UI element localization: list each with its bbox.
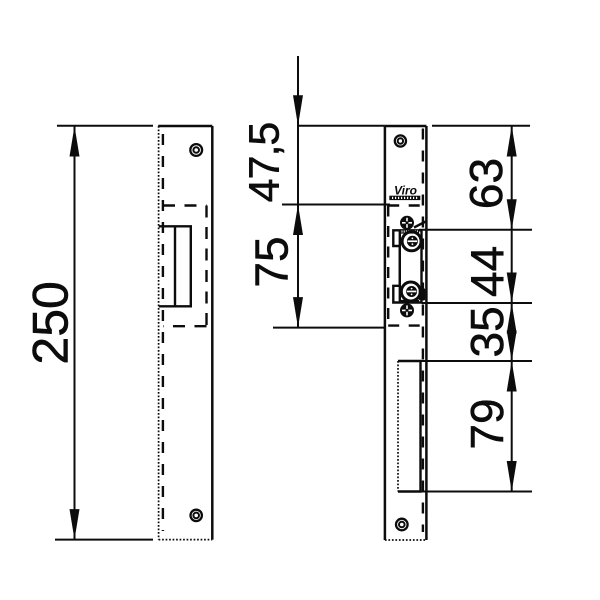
left view latch pocket rectangle (159, 226, 191, 306)
extension line 250 bottom (55, 539, 153, 541)
arrow 63 top (tip up) (507, 126, 517, 157)
arrow 35 top (tip up) (507, 303, 517, 334)
right view dashed cutout top edge (388, 204, 423, 206)
arrow 250 bottom (tip down) (70, 509, 80, 539)
left view plate right edge (211, 126, 214, 540)
latch pin blob (419, 288, 426, 300)
pointer diagonal tick at 63/44 boundary (414, 221, 427, 228)
bottom serrated adjuster bar (400, 300, 420, 303)
extension line right top (432, 125, 530, 127)
strike slot rectangle (79) (398, 361, 421, 492)
top phillips screw (400, 216, 414, 230)
extension line 75 bottom (273, 327, 385, 329)
svg-text:75: 75 (246, 236, 298, 287)
left view plate left edge (thin dotted) (158, 126, 160, 540)
svg-text:63: 63 (460, 158, 512, 209)
extension line 63/44 boundary (419, 229, 532, 231)
arrow 79 bottom (tip down) (507, 461, 517, 492)
right view bottom screw hole inner (399, 522, 405, 528)
right view bend hidden line (dashed) (422, 129, 424, 533)
arrow 35 bottom (tip down) (507, 331, 517, 362)
right view bottom screw hole outer (396, 519, 408, 531)
right view plate right edge (425, 126, 428, 540)
extension line 79 bottom (421, 491, 533, 493)
top serrated adjuster bar (400, 230, 420, 234)
left view dashed cutout bottom edge (163, 325, 207, 327)
svg-text:47,5: 47,5 (241, 123, 289, 203)
left view dashed cutout top edge (163, 204, 207, 206)
left view top screw hole inner (193, 147, 199, 153)
strike body outline with left tabs (393, 230, 421, 302)
arrow 75 top (tip up, below line) (293, 205, 303, 236)
arrow 79 top (tip up) (507, 361, 517, 392)
right view top screw hole inner (398, 138, 403, 143)
arrow 75 bottom (tip down) (293, 297, 303, 328)
extension line 47,5 bottom (282, 204, 390, 206)
strike body inner left edge (399, 230, 401, 302)
svg-text:79: 79 (461, 398, 513, 449)
right view plate left edge (384, 126, 387, 540)
dimension line 250 (74, 126, 76, 540)
extension line 250 top (57, 125, 153, 127)
extension line 44/35 boundary (422, 302, 533, 304)
left view plate bottom edge (thin dotted) (159, 539, 213, 541)
right view top screw hole outer (395, 135, 406, 146)
arrow 250 top (tip up) (70, 126, 80, 157)
right view dashed cutout bottom edge (388, 324, 423, 326)
bottom phillips screw (400, 303, 414, 317)
left view latch pocket divider (174, 226, 176, 306)
left view top screw hole outer (190, 144, 202, 156)
right view dashed cutout left edge (387, 206, 389, 326)
right dimension line (63/44/35/79) (511, 126, 513, 492)
right view plate top edge (385, 125, 427, 128)
left view dashed cutout right edge (205, 206, 207, 327)
middle dimension line (47,5 / 75) (297, 56, 299, 328)
left view bottom screw hole inner (193, 513, 199, 519)
left view plate top edge (158, 125, 212, 128)
arrow 63 bottom (tip down) (507, 199, 517, 230)
right view plate bottom edge (thin dotted) (385, 539, 427, 541)
bottom barrel keeper screw (401, 282, 420, 301)
svg-text:44: 44 (461, 246, 513, 297)
extension line 35/79 boundary (421, 360, 532, 362)
svg-text:Viro: Viro (394, 184, 417, 198)
svg-text:35: 35 (461, 306, 513, 357)
extension line top middle-right (298, 125, 385, 127)
arrow 47,5 top (tip down, above line) (293, 95, 303, 126)
left view bend hidden line (dashed) (162, 134, 164, 531)
strike slot left edge (thin dotted) (397, 361, 399, 492)
Viro logo bar (389, 196, 420, 200)
arrow 44 bottom (tip down) (507, 273, 517, 304)
left view bottom screw hole outer (191, 510, 202, 521)
svg-text:250: 250 (23, 281, 79, 364)
top barrel keeper screw (402, 232, 421, 251)
